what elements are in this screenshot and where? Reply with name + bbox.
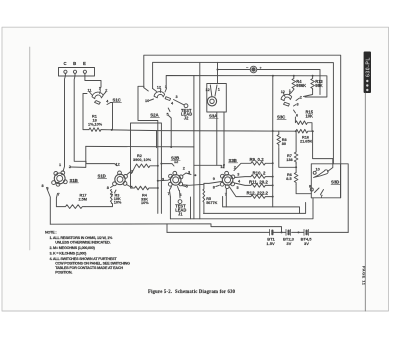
svg-text:1: 1 [218, 87, 220, 91]
svg-text:Figure 5-2. Schematic Diagram: Figure 5-2. Schematic Diagram for 630 [148, 290, 236, 295]
svg-text:3: 3 [297, 102, 299, 106]
svg-text:NOTE :: NOTE : [45, 231, 56, 235]
battery BT4,5 [301, 229, 313, 246]
svg-text:9: 9 [213, 177, 215, 181]
svg-text:3: 3 [237, 172, 239, 176]
vertical from bus to R-chain bus [272, 76, 274, 164]
wire R17 to R3 (box bottom) [85, 204, 113, 207]
svg-text:3. K = KILOHMS (1,000): 3. K = KILOHMS (1,000) [50, 252, 88, 256]
svg-text:12: 12 [206, 88, 210, 92]
main horizontal bus y=130.6 [112, 130, 296, 131]
S1C pin4 wire down [111, 103, 113, 130]
switch S3B [213, 158, 241, 197]
svg-text:1: 1 [289, 89, 291, 93]
svg-text:J2: J2 [184, 116, 189, 121]
binder tab [364, 52, 372, 94]
svg-text:1: 1 [99, 87, 101, 91]
wire R6 to S3D pin8 [296, 185, 311, 194]
svg-text:S3C: S3C [277, 114, 286, 119]
svg-text:8.5: 8.5 [286, 177, 291, 181]
S2A box [138, 86, 158, 213]
svg-text:POSITION.: POSITION. [55, 271, 72, 275]
svg-text:7: 7 [321, 195, 323, 199]
svg-text:9: 9 [162, 178, 164, 182]
svg-text:10%: 10% [114, 201, 122, 205]
wire R13 to S3C pin2 [304, 90, 313, 97]
bottom bus from S1B pin6 [50, 224, 281, 233]
svg-text:TABLES FOR CONTACTS MADE AT EA: TABLES FOR CONTACTS MADE AT EACH [55, 266, 123, 270]
resistor R7 [286, 152, 298, 164]
svg-text:1: 1 [59, 163, 61, 167]
wire C to S1B pin1 [63, 73, 65, 171]
switch S2B [161, 156, 191, 197]
resistor R11 [235, 179, 273, 187]
svg-text:3: 3 [176, 95, 178, 99]
svg-text:3V: 3V [304, 241, 309, 246]
S1B pin7 wire to R17 [56, 194, 57, 207]
vertical collector [272, 163, 274, 207]
svg-text:8: 8 [309, 185, 311, 189]
svg-text:PAGE 11: PAGE 11 [362, 266, 367, 286]
switch S2A [145, 85, 178, 117]
svg-text:138: 138 [286, 158, 292, 162]
node S2B pin3 [194, 174, 196, 176]
svg-text:5: 5 [237, 186, 239, 190]
svg-text:6: 6 [296, 114, 298, 118]
svg-text:1. ALL RESISTORS IN OHMS, 1/2: 1. ALL RESISTORS IN OHMS, 1/2 W, 1% [50, 236, 114, 240]
svg-text:12: 12 [157, 86, 161, 90]
S3B left wires [194, 164, 222, 166]
R2 box left vertical [130, 146, 132, 188]
svg-text:12: 12 [116, 163, 120, 167]
svg-text:1%,10%: 1%,10% [88, 123, 103, 127]
resistor R5 [203, 183, 218, 213]
box around R5 region [204, 203, 306, 214]
S1B pin2 wire to node [71, 161, 86, 167]
svg-text:2: 2 [183, 167, 185, 171]
svg-text:S1B: S1B [70, 178, 78, 183]
wire R1 to junction [101, 129, 112, 131]
svg-text:3900, 10%: 3900, 10% [133, 158, 152, 162]
S1B pin6 wire to bottom bus [47, 188, 51, 225]
svg-text:3: 3 [188, 171, 190, 175]
resistor R4b 33K [131, 186, 158, 205]
svg-text:10: 10 [316, 168, 320, 172]
wire S2B pin7 to J1 box [169, 191, 172, 198]
wire R16 to R7 [295, 131, 297, 152]
S3B pin7 wire down [225, 189, 227, 207]
svg-text:11: 11 [88, 89, 92, 93]
wire S2B pin6 to J1 [179, 191, 182, 198]
S2A pin5 wire down to node [169, 116, 172, 148]
wire S3A to S3B [223, 112, 225, 168]
svg-text:R11, 20.2: R11, 20.2 [249, 179, 268, 184]
resistor R15 [295, 110, 313, 132]
node column resistors [272, 162, 274, 164]
svg-text:10K: 10K [306, 114, 314, 119]
svg-text:S2B: S2B [171, 156, 179, 161]
svg-text:12: 12 [281, 90, 285, 94]
box around R network [223, 197, 300, 214]
battery BT2,3 [283, 229, 295, 246]
node on v-bus [157, 165, 159, 167]
svg-text:80: 80 [282, 142, 286, 146]
J1 bottom bus [170, 198, 313, 219]
svg-text:R10, 2: R10, 2 [253, 170, 266, 175]
battery BT1 [266, 229, 275, 246]
wire J2 area vertical x=161.4 [131, 123, 162, 213]
spur to lower bus [156, 131, 158, 148]
svg-text:J1: J1 [178, 211, 183, 216]
svg-text:8: 8 [107, 186, 109, 190]
node R1 junction [111, 129, 113, 131]
svg-text:8: 8 [42, 184, 44, 188]
svg-text:10: 10 [145, 99, 149, 103]
wire S2B pin5 to R5 [183, 184, 204, 185]
PAGE 11 vertical text [362, 266, 367, 286]
svg-text:8: 8 [213, 186, 215, 190]
resistor R10 [235, 170, 273, 178]
resistor R6 [286, 173, 298, 185]
resistor R16 [272, 129, 314, 143]
svg-text:2: 2 [300, 95, 302, 99]
svg-text:3V: 3V [286, 241, 291, 246]
svg-text:UNLESS OTHERWISE INDICATED.: UNLESS OTHERWISE INDICATED. [55, 240, 110, 244]
bus y=75.5 [166, 76, 327, 98]
svg-text:CCW POSITIONS ON PANEL. SEE SW: CCW POSITIONS ON PANEL. SEE SWITCHING [55, 262, 130, 266]
jack S3A [206, 84, 227, 119]
resistor R8 [277, 131, 287, 147]
svg-text:2.5M: 2.5M [79, 198, 87, 202]
svg-text:C: C [64, 61, 67, 66]
svg-text:98K: 98K [315, 83, 323, 88]
svg-text:E: E [83, 61, 86, 66]
resistor R9 [234, 157, 273, 171]
page edge line [364, 93, 366, 311]
svg-text:5677K: 5677K [206, 201, 217, 205]
switch S1C [88, 87, 122, 105]
wire R16 to S3D [313, 131, 333, 158]
svg-text:S3D: S3D [331, 179, 339, 184]
svg-text:S1C: S1C [113, 97, 122, 102]
transistor socket CBE [59, 61, 95, 76]
resistor R12 [230, 187, 273, 198]
svg-text:S1D: S1D [98, 173, 106, 178]
wire S3A drop [217, 62, 219, 83]
resistor R4 [292, 76, 306, 90]
svg-text:21.65K: 21.65K [300, 139, 313, 143]
svg-text:1.5V: 1.5V [266, 241, 275, 246]
bus y=146.4 [86, 145, 194, 148]
wire L1 top frame [144, 55, 341, 198]
wire R4 to S3C pin1 [291, 90, 294, 94]
switch S3C [277, 89, 302, 119]
svg-text:10%: 10% [141, 201, 149, 205]
test lead J1 [170, 197, 190, 219]
long verticals mid [193, 76, 195, 219]
svg-text:2. M= MEGOHMS (1,000,000): 2. M= MEGOHMS (1,000,000) [50, 246, 96, 250]
svg-text:986K: 986K [296, 83, 306, 88]
node meter left [217, 69, 219, 71]
resistor R2 [132, 154, 158, 174]
svg-text:2: 2 [105, 89, 107, 93]
svg-text:630-PL: 630-PL [366, 57, 372, 77]
svg-text:R12, 222.2: R12, 222.2 [247, 191, 269, 196]
meter M1 [218, 66, 321, 94]
svg-text:4. ALL SWITCHES SHOWN AT FURTH: 4. ALL SWITCHES SHOWN AT FURTHEST [50, 257, 118, 261]
svg-text:7: 7 [58, 193, 60, 197]
switch S1D [98, 163, 133, 198]
svg-text:S2A: S2A [150, 112, 159, 117]
resistor R17 [56, 194, 87, 209]
test lead J2 jack [174, 100, 193, 121]
wire R8 bottom to node [279, 148, 296, 168]
resistor R3 [110, 190, 122, 205]
switch S3D contacts [309, 159, 333, 199]
notes [45, 231, 130, 275]
resistor R13 [311, 76, 324, 90]
wire L2 top second [153, 62, 334, 164]
switch S1B [42, 163, 79, 197]
wire from node to S2B pin9 [158, 179, 171, 181]
battery bus [167, 231, 348, 233]
switch S3D box [311, 164, 348, 233]
wire E to S1C pin1 [85, 73, 101, 89]
S1C box left [83, 94, 89, 130]
svg-text:S3B: S3B [229, 158, 237, 163]
caption [148, 290, 236, 295]
wire B to S1D pin12 [74, 73, 117, 165]
svg-text:R9, 0.2: R9, 0.2 [250, 157, 265, 162]
svg-text:B: B [73, 61, 76, 66]
resistor R1 [88, 115, 103, 132]
